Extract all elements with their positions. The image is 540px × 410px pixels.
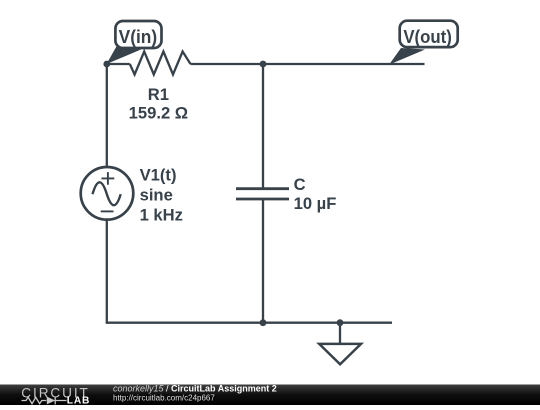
V1 plus sign [102, 172, 115, 185]
footer bar [0, 385, 540, 406]
svg-text:V1(t): V1(t) [140, 166, 177, 185]
svg-text:http://circuitlab.com/c24p667: http://circuitlab.com/c24p667 [113, 394, 215, 403]
V1 minus sign [101, 210, 114, 212]
net flag V(in) [107, 21, 162, 64]
voltage source V1 circle [81, 167, 134, 220]
wire: bottom ground rail [106, 322, 392, 324]
wire: junction down to capacitor top plate [262, 64, 264, 188]
capacitor C top plate [236, 187, 289, 190]
junction node dot at capacitor bottom [260, 319, 267, 326]
V1 sine symbol [93, 182, 121, 205]
capacitor C bottom plate [236, 198, 289, 201]
svg-text:R1: R1 [148, 85, 169, 104]
wire: capacitor bottom plate down to ground rail [262, 199, 264, 323]
svg-text:1 kHz: 1 kHz [140, 206, 183, 225]
wire: resistor right lead to capacitor junction [191, 63, 264, 65]
net flag V(out) [389, 21, 458, 65]
svg-text:C: C [294, 175, 306, 194]
wire: voltage source bottom down to ground rail [106, 218, 108, 323]
node dot V(in) [103, 61, 110, 68]
resistor R1 zigzag [130, 52, 191, 75]
svg-text:10 µF: 10 µF [294, 194, 337, 213]
junction node dot at ground tap [337, 319, 344, 326]
wire: junction to V(out) flag [263, 63, 425, 65]
svg-text:LAB: LAB [67, 396, 90, 405]
svg-text:sine: sine [140, 185, 173, 204]
wire: V(in) node down to voltage source top [106, 64, 108, 169]
CircuitLab logo resistor-diode glyph [22, 397, 67, 405]
wire: V(in) node to resistor left lead [107, 63, 130, 65]
svg-text:V(in): V(in) [119, 26, 158, 47]
svg-text:conorkelly15 / CircuitLab Assi: conorkelly15 / CircuitLab Assignment 2 [113, 384, 277, 394]
ground symbol [319, 323, 361, 365]
svg-text:159.2 Ω: 159.2 Ω [129, 104, 188, 123]
svg-text:V(out): V(out) [403, 26, 452, 47]
junction node dot at capacitor top [260, 61, 267, 68]
